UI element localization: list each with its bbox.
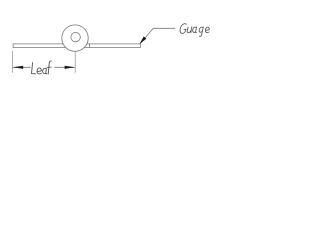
label Leaf xyxy=(32,61,52,74)
seam line right of knuckle xyxy=(88,44,90,48)
knuckle inner circle xyxy=(71,32,80,41)
extension line right xyxy=(74,52,76,73)
knuckle outer circle xyxy=(62,25,88,51)
leader arrowhead xyxy=(139,36,146,44)
dimension arrow right xyxy=(65,66,76,69)
dimension line left segment xyxy=(13,66,31,68)
extension line left xyxy=(12,51,14,73)
label Guage xyxy=(179,24,209,37)
dimension line right segment xyxy=(54,66,74,68)
leaf bar outline xyxy=(13,44,140,48)
leader line xyxy=(140,28,175,43)
dimension arrow left xyxy=(13,66,23,69)
